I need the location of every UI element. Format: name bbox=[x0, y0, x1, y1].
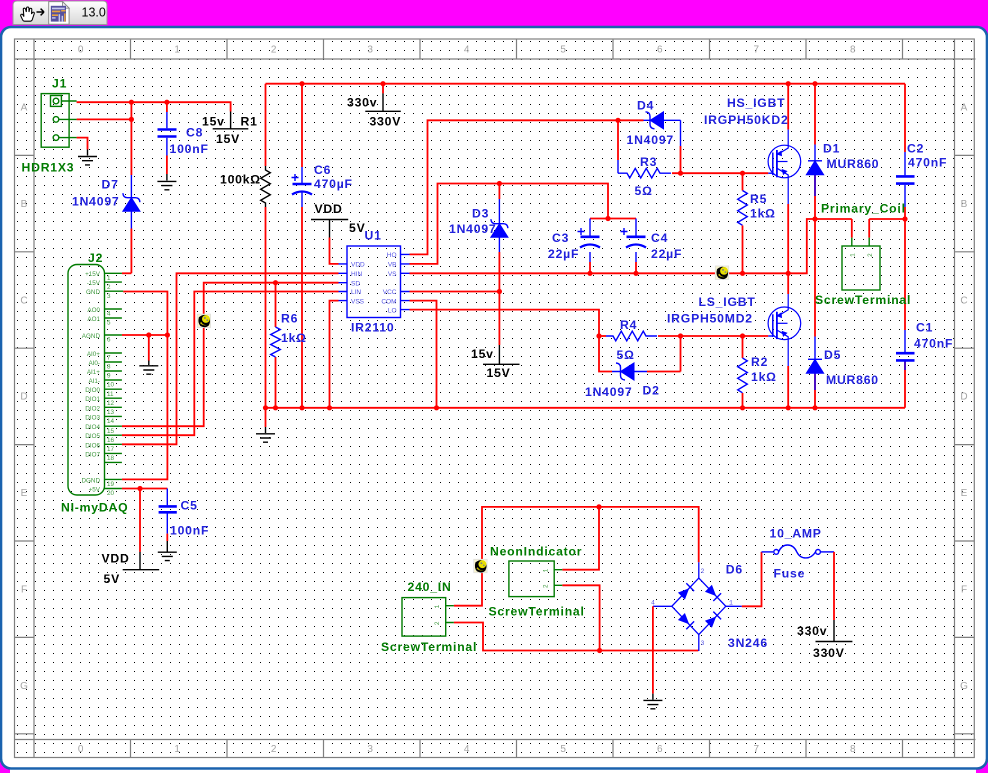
wire 240 line top bbox=[454, 507, 699, 606]
svg-text:100nF: 100nF bbox=[170, 524, 209, 538]
wire D4/R3 right node bbox=[680, 146, 682, 173]
wire C4 leads bbox=[635, 219, 637, 263]
svg-text:R5: R5 bbox=[750, 192, 767, 206]
svg-text:11: 11 bbox=[107, 391, 114, 398]
wire VCC net bbox=[410, 291, 500, 293]
wire C3 leads bbox=[589, 219, 591, 263]
svg-text:12: 12 bbox=[107, 400, 115, 407]
svg-text:C4: C4 bbox=[651, 231, 668, 245]
svg-text:VS: VS bbox=[388, 271, 397, 278]
diode D2 1N4097 bbox=[616, 363, 634, 380]
wire C2 branch bbox=[904, 84, 906, 219]
wire C5 ground lead bbox=[166, 534, 168, 541]
svg-text:D4: D4 bbox=[637, 99, 654, 113]
ruler letters right bbox=[960, 103, 968, 692]
svg-text:HIN: HIN bbox=[351, 271, 363, 278]
ground (J1 pin3) bbox=[78, 150, 97, 165]
svg-text:2: 2 bbox=[434, 621, 441, 625]
svg-text:NI-myDAQ: NI-myDAQ bbox=[61, 501, 128, 515]
svg-text:2: 2 bbox=[867, 253, 874, 257]
hand tool icon bbox=[21, 7, 35, 21]
svg-text:D1: D1 bbox=[823, 142, 840, 156]
svg-text:1N4097: 1N4097 bbox=[72, 195, 120, 209]
node marker ball (VS wire) bbox=[715, 266, 728, 279]
wire R5 top lead bbox=[742, 173, 744, 190]
wire D1 branch bbox=[814, 84, 816, 219]
transistor LS_IGBT IRGPH50MD2 bbox=[768, 294, 801, 366]
op-amp U1 IR2110 box bbox=[339, 246, 410, 318]
svg-text:1: 1 bbox=[434, 605, 441, 609]
wire D5 branch bbox=[814, 219, 816, 408]
svg-text:D: D bbox=[20, 392, 27, 403]
wire LO net bbox=[410, 310, 613, 372]
svg-text:AI1-: AI1- bbox=[88, 378, 100, 385]
wire VDD bottom stem bbox=[139, 489, 141, 552]
svg-text:13: 13 bbox=[107, 409, 115, 416]
svg-text:IRGPH50KD2: IRGPH50KD2 bbox=[704, 113, 789, 127]
wire R2 top lead bbox=[742, 336, 744, 358]
svg-text:F: F bbox=[21, 585, 27, 596]
svg-text:Fuse: Fuse bbox=[774, 567, 806, 581]
wire ground stem bbox=[265, 408, 267, 427]
svg-text:C5: C5 bbox=[181, 499, 198, 513]
svg-text:AI1+: AI1+ bbox=[87, 369, 100, 376]
wire VS node bus bbox=[410, 219, 906, 273]
svg-text:3N246: 3N246 bbox=[728, 636, 768, 650]
wire D3/VCC branch bbox=[498, 184, 500, 346]
connector NeonIndicator ScrewTerminal bbox=[509, 561, 562, 597]
wire HO net bbox=[410, 120, 644, 254]
wire D2 leads bbox=[612, 371, 647, 373]
svg-text:7: 7 bbox=[754, 45, 760, 56]
wire fuse to 330v supply bbox=[833, 552, 835, 620]
diode D5 MUR860 bbox=[807, 337, 824, 391]
svg-text:VDD: VDD bbox=[102, 552, 130, 566]
svg-text:D2: D2 bbox=[643, 384, 660, 398]
svg-text:5Ω: 5Ω bbox=[635, 184, 653, 198]
svg-text:SD: SD bbox=[351, 280, 360, 287]
svg-text:IR2110: IR2110 bbox=[351, 321, 394, 335]
svg-text:15V: 15V bbox=[216, 132, 240, 146]
svg-text:3: 3 bbox=[701, 640, 705, 647]
svg-text:J2: J2 bbox=[88, 251, 103, 265]
svg-text:G: G bbox=[20, 681, 28, 692]
svg-text:C3: C3 bbox=[552, 231, 569, 245]
svg-text:D: D bbox=[960, 392, 967, 403]
svg-text:VDD: VDD bbox=[351, 262, 365, 269]
resistor R1 100kOhm bbox=[261, 166, 271, 207]
svg-text:9: 9 bbox=[107, 373, 111, 380]
svg-text:4: 4 bbox=[464, 45, 470, 56]
wire R4 left lead bbox=[599, 335, 606, 337]
wire R6 branch bbox=[275, 283, 277, 408]
wire D7 branch vertical bbox=[130, 102, 132, 273]
svg-text:17: 17 bbox=[107, 446, 115, 453]
wire J1 pin2 to D7 node bbox=[77, 118, 132, 120]
svg-text:22µF: 22µF bbox=[548, 247, 579, 261]
svg-text:VDD: VDD bbox=[315, 202, 343, 216]
diode D3 1N4097 bbox=[491, 199, 508, 252]
wire J2 pin20 +5V bbox=[122, 488, 167, 490]
svg-text:AO1: AO1 bbox=[87, 316, 100, 323]
U1 pin names bbox=[351, 262, 365, 306]
svg-text:VCC: VCC bbox=[383, 289, 397, 296]
J2 pin numbers bbox=[107, 275, 115, 497]
capacitor C1 470nF bbox=[896, 330, 915, 370]
svg-text:HO: HO bbox=[387, 252, 397, 259]
power 15v supply (top left) bbox=[213, 112, 249, 129]
svg-text:-15V: -15V bbox=[87, 280, 101, 287]
svg-text:19: 19 bbox=[107, 481, 115, 488]
wire SD net bbox=[122, 283, 339, 427]
svg-text:2: 2 bbox=[271, 744, 277, 755]
svg-text:330V: 330V bbox=[370, 115, 402, 129]
svg-text:F: F bbox=[961, 585, 967, 596]
wire J2 pin1 (+15V) bbox=[122, 272, 131, 274]
svg-text:1: 1 bbox=[729, 600, 733, 607]
svg-text:D6: D6 bbox=[726, 563, 743, 577]
svg-text:C: C bbox=[20, 295, 27, 306]
multisim document icon bbox=[49, 2, 69, 25]
svg-text:18: 18 bbox=[107, 455, 115, 462]
wire VSS net bbox=[330, 301, 339, 408]
svg-text:R4: R4 bbox=[620, 318, 637, 332]
diode D7 1N4097 bbox=[123, 175, 140, 229]
svg-text:8: 8 bbox=[850, 45, 856, 56]
svg-text:DIO3: DIO3 bbox=[85, 414, 100, 421]
wire neon pin2 bbox=[562, 585, 599, 650]
power 330v supply (top) bbox=[365, 93, 401, 111]
svg-text:14: 14 bbox=[107, 418, 115, 425]
wire 330v supply stem (top) bbox=[382, 84, 384, 94]
svg-text:1N4097: 1N4097 bbox=[449, 222, 497, 236]
svg-text:1: 1 bbox=[174, 45, 180, 56]
svg-text:7: 7 bbox=[107, 355, 111, 362]
svg-text:1kΩ: 1kΩ bbox=[751, 370, 777, 384]
svg-text:6: 6 bbox=[657, 45, 663, 56]
svg-text:U1: U1 bbox=[365, 229, 382, 243]
svg-text:ScrewTerminal: ScrewTerminal bbox=[489, 605, 585, 619]
connector J2 NI-myDAQ bbox=[68, 265, 123, 496]
arrow icon bbox=[37, 9, 45, 16]
wire J2 pin3 GND vertical bbox=[122, 292, 167, 480]
svg-text:+15V: +15V bbox=[85, 271, 101, 278]
svg-text:470nF: 470nF bbox=[914, 337, 953, 351]
svg-text:C: C bbox=[960, 295, 967, 306]
capacitor C5 100nF bbox=[159, 489, 177, 534]
wire 330V top bus bbox=[266, 83, 906, 85]
svg-text:DIO1: DIO1 bbox=[85, 396, 100, 403]
svg-text:5: 5 bbox=[107, 320, 111, 327]
resistor R5 1kOhm bbox=[738, 191, 748, 226]
svg-text:100kΩ: 100kΩ bbox=[220, 173, 261, 187]
resistor R4 5 Ohm bbox=[606, 331, 657, 341]
svg-text:15v: 15v bbox=[202, 115, 225, 129]
svg-text:C6: C6 bbox=[314, 163, 331, 177]
svg-text:AI0+: AI0+ bbox=[87, 351, 100, 358]
node marker ball (DAQ wire) bbox=[197, 314, 210, 327]
svg-text:470nF: 470nF bbox=[908, 156, 947, 170]
resistor R2 1kOhm bbox=[738, 358, 748, 393]
svg-text:AO0: AO0 bbox=[87, 307, 100, 314]
wire COM net bbox=[410, 301, 437, 408]
svg-text:DIO7: DIO7 bbox=[85, 451, 100, 458]
svg-text:IRGPH50MD2: IRGPH50MD2 bbox=[667, 312, 753, 326]
svg-text:MUR860: MUR860 bbox=[826, 373, 879, 387]
power 15v supply (mid) bbox=[483, 345, 520, 364]
svg-text:DIO4: DIO4 bbox=[85, 424, 100, 431]
svg-text:ScrewTerminal: ScrewTerminal bbox=[815, 293, 911, 307]
svg-text:3: 3 bbox=[367, 45, 373, 56]
svg-text:6: 6 bbox=[107, 337, 111, 344]
connector J1 HDR1X3 bbox=[41, 94, 76, 148]
svg-text:10: 10 bbox=[107, 382, 115, 389]
svg-text:VB: VB bbox=[388, 262, 397, 269]
svg-text:20: 20 bbox=[107, 490, 115, 497]
transistor HS_IGBT IRGPH50KD2 bbox=[768, 130, 801, 204]
resistor R3 5 Ohm bbox=[618, 160, 671, 178]
svg-text:MUR860: MUR860 bbox=[827, 157, 880, 171]
ruler letters left bbox=[20, 103, 28, 692]
wire J1 pin1 to 15v supply bbox=[77, 102, 231, 111]
resistor R6 1kOhm bbox=[271, 327, 281, 357]
wire HIN net bbox=[122, 273, 339, 444]
wire HS collector bbox=[787, 84, 789, 130]
svg-text:VSS: VSS bbox=[351, 298, 365, 305]
capacitor C3 22uF bbox=[578, 228, 601, 248]
ruler numbers top bbox=[78, 45, 856, 56]
diode D4 1N4097 bbox=[646, 112, 664, 129]
svg-text:22µF: 22µF bbox=[651, 247, 682, 261]
svg-text:A: A bbox=[961, 103, 968, 114]
svg-text:D3: D3 bbox=[472, 207, 489, 221]
power 330v supply (bottom) bbox=[816, 620, 853, 642]
wire LS collector bbox=[787, 273, 789, 294]
svg-text:5: 5 bbox=[560, 45, 566, 56]
svg-text:330v: 330v bbox=[347, 96, 377, 110]
power VDD supply (U1) bbox=[311, 220, 348, 238]
wire LIN net bbox=[122, 292, 339, 436]
diode bridge D6 3N246 bbox=[653, 562, 742, 651]
svg-text:1: 1 bbox=[543, 569, 550, 573]
svg-text:2: 2 bbox=[271, 45, 277, 56]
wire 240 line bottom bbox=[454, 623, 699, 652]
wire primary coil terminal drops bbox=[852, 219, 869, 238]
wire neon pin1 bbox=[562, 507, 599, 570]
capacitor C8 bbox=[158, 112, 177, 156]
svg-text:1: 1 bbox=[107, 275, 111, 282]
ground (bridge) bbox=[643, 694, 662, 709]
wire R5 bottom lead bbox=[742, 226, 744, 274]
capacitor C2 470nF bbox=[896, 152, 915, 207]
wire HS emitter bbox=[787, 204, 789, 273]
svg-text:0: 0 bbox=[78, 744, 84, 755]
svg-text:330V: 330V bbox=[813, 646, 845, 660]
svg-text:NeonIndicator: NeonIndicator bbox=[490, 545, 582, 559]
svg-text:COM: COM bbox=[381, 298, 396, 305]
diode D1 MUR860 bbox=[807, 145, 824, 197]
svg-text:E: E bbox=[961, 488, 968, 499]
svg-text:G: G bbox=[960, 681, 968, 692]
svg-text:13.0: 13.0 bbox=[82, 6, 106, 20]
ground (C8) bbox=[157, 174, 176, 190]
wire LS gate bbox=[658, 335, 768, 337]
svg-text:0: 0 bbox=[78, 45, 84, 56]
svg-text:1kΩ: 1kΩ bbox=[750, 207, 776, 221]
svg-text:+5V: +5V bbox=[89, 487, 101, 494]
svg-text:J1: J1 bbox=[52, 77, 67, 91]
svg-text:15v: 15v bbox=[471, 347, 494, 361]
J2 pin names bbox=[81, 271, 100, 494]
wire C6 branch bbox=[301, 84, 303, 408]
wire J2 AGND bbox=[122, 334, 167, 336]
svg-text:2: 2 bbox=[701, 568, 705, 575]
wire D4 anode lead bbox=[644, 120, 681, 146]
svg-text:DIO0: DIO0 bbox=[85, 387, 100, 394]
svg-text:470µF: 470µF bbox=[314, 177, 353, 191]
svg-text:4: 4 bbox=[107, 311, 111, 318]
svg-text:B: B bbox=[21, 199, 28, 210]
wire J1 pin3 to ground bbox=[77, 138, 88, 150]
svg-text:5V: 5V bbox=[349, 221, 366, 235]
svg-text:240_IN: 240_IN bbox=[408, 580, 452, 594]
svg-text:DIO2: DIO2 bbox=[85, 405, 100, 412]
power VDD supply (bottom) bbox=[123, 552, 160, 570]
toolbar tab bbox=[13, 1, 107, 25]
svg-text:DIO5: DIO5 bbox=[85, 433, 100, 440]
svg-text:C8: C8 bbox=[186, 126, 203, 140]
svg-text:D7: D7 bbox=[102, 178, 119, 192]
wire HS gate bbox=[672, 172, 768, 174]
svg-text:R3: R3 bbox=[640, 155, 657, 169]
svg-text:C1: C1 bbox=[916, 321, 933, 335]
svg-text:4: 4 bbox=[464, 744, 470, 755]
svg-text:LO: LO bbox=[388, 307, 397, 314]
ground (main bus) bbox=[256, 427, 275, 442]
fuse 10_AMP bbox=[762, 545, 835, 558]
svg-text:DGND: DGND bbox=[81, 477, 100, 484]
svg-text:Primary_Coil: Primary_Coil bbox=[821, 202, 906, 216]
wire bridge pin4 to ground bbox=[652, 606, 654, 693]
version text 13.0 bbox=[82, 6, 106, 20]
svg-text:16: 16 bbox=[107, 437, 115, 444]
svg-text:E: E bbox=[21, 488, 28, 499]
connector 240_IN ScrewTerminal bbox=[402, 598, 454, 637]
node marker ball (240 in) bbox=[474, 559, 487, 572]
connector Primary_Coil ScrewTerminal bbox=[842, 238, 880, 290]
wire C8 branch bbox=[166, 102, 168, 174]
svg-text:2: 2 bbox=[107, 284, 111, 291]
svg-text:2: 2 bbox=[543, 584, 550, 588]
svg-text:8: 8 bbox=[850, 744, 856, 755]
wire VB net bbox=[410, 184, 637, 264]
ruler numbers bottom bbox=[78, 744, 856, 755]
capacitor C4 22uF bbox=[621, 228, 647, 248]
svg-text:4: 4 bbox=[651, 600, 655, 607]
ground (C5) bbox=[158, 541, 177, 561]
wire R3 branch bbox=[617, 120, 619, 160]
svg-text:1N4097: 1N4097 bbox=[585, 385, 633, 399]
svg-text:3: 3 bbox=[367, 744, 373, 755]
svg-text:7: 7 bbox=[754, 744, 760, 755]
svg-text:ScrewTerminal: ScrewTerminal bbox=[381, 640, 477, 654]
svg-text:C2: C2 bbox=[907, 142, 924, 156]
svg-text:AGND: AGND bbox=[82, 333, 101, 340]
svg-text:R1: R1 bbox=[241, 115, 258, 129]
svg-text:AI0-: AI0- bbox=[88, 360, 100, 367]
svg-text:330v: 330v bbox=[797, 624, 827, 638]
wire LS emitter bbox=[787, 366, 789, 408]
svg-text:1N4097: 1N4097 bbox=[627, 133, 675, 147]
svg-text:D5: D5 bbox=[824, 348, 841, 362]
svg-text:1kΩ: 1kΩ bbox=[281, 331, 307, 345]
wire AGND ground stem bbox=[148, 335, 150, 361]
svg-text:10_AMP: 10_AMP bbox=[770, 527, 822, 541]
svg-text:R6: R6 bbox=[281, 312, 298, 326]
svg-text:6: 6 bbox=[657, 744, 663, 755]
wire ground bus (bottom of bridge section) bbox=[266, 407, 906, 409]
svg-text:8: 8 bbox=[107, 364, 111, 371]
svg-text:LS_IGBT: LS_IGBT bbox=[699, 295, 756, 309]
svg-text:B: B bbox=[961, 199, 968, 210]
svg-text:DIO6: DIO6 bbox=[85, 442, 100, 449]
svg-text:A: A bbox=[21, 103, 28, 114]
svg-text:15V: 15V bbox=[487, 366, 511, 380]
svg-text:1: 1 bbox=[850, 253, 857, 257]
wire R2 bottom lead bbox=[742, 393, 744, 408]
wire VDD net bbox=[330, 238, 339, 264]
svg-text:GND: GND bbox=[86, 289, 100, 296]
svg-text:100nF: 100nF bbox=[170, 142, 209, 156]
svg-text:5V: 5V bbox=[104, 572, 121, 586]
wire C1 branch bbox=[904, 219, 906, 408]
svg-text:R2: R2 bbox=[751, 355, 768, 369]
svg-text:5Ω: 5Ω bbox=[617, 348, 635, 362]
svg-text:5: 5 bbox=[560, 744, 566, 755]
svg-text:15: 15 bbox=[107, 428, 115, 435]
resistor R1 100k branch wire bbox=[265, 84, 267, 408]
capacitor C6 470uF bbox=[292, 167, 313, 207]
wire bridge pin1 to fuse bbox=[742, 552, 762, 606]
ground (AGND) bbox=[139, 361, 158, 375]
svg-text:HS_IGBT: HS_IGBT bbox=[727, 96, 785, 110]
svg-text:3: 3 bbox=[107, 293, 111, 300]
svg-text:1: 1 bbox=[174, 744, 180, 755]
svg-text:HDR1X3: HDR1X3 bbox=[22, 161, 75, 175]
svg-text:LIN: LIN bbox=[351, 289, 361, 296]
